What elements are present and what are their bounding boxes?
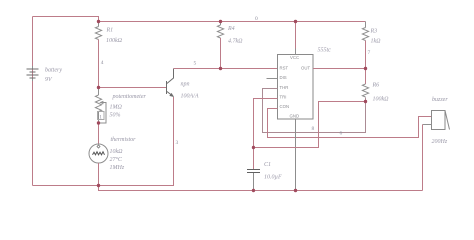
wire node 4 R1 bottom to potentiometer — [98, 40, 100, 88]
svg-text:7: 7 — [368, 50, 371, 56]
svg-text:8: 8 — [312, 126, 315, 132]
wire pot bottom to thermistor — [98, 123, 100, 144]
capacitor C1 10uF — [247, 148, 260, 191]
svg-text:R4: R4 — [227, 25, 235, 32]
svg-text:thermistor: thermistor — [111, 137, 137, 143]
wire R4 bottom to collector net — [220, 38, 222, 69]
op-amp U1 555 timer box — [278, 55, 314, 120]
battery V1 9V — [27, 66, 39, 81]
wire CON to buzzer top — [268, 109, 432, 138]
svg-text:VCC: VCC — [290, 55, 299, 60]
svg-text:TRI: TRI — [280, 95, 287, 100]
pin stub VCC — [295, 49, 297, 55]
wire OUT pin to R3 R6 node 7 — [313, 68, 366, 70]
svg-text:4: 4 — [101, 60, 104, 66]
svg-text:buzzer: buzzer — [432, 97, 448, 103]
svg-text:CON: CON — [280, 104, 290, 109]
potentiometer P1 1M 50% — [95, 88, 106, 124]
wire buzzer bottom to ground rail — [422, 125, 424, 191]
svg-text:3: 3 — [176, 140, 179, 146]
svg-text:1MHz: 1MHz — [110, 165, 125, 171]
svg-text:5: 5 — [194, 61, 197, 67]
wire ground rail jog — [99, 186, 423, 191]
wire TRI to C1 top — [254, 99, 278, 148]
svg-text:DIS: DIS — [280, 75, 287, 80]
svg-text:50%: 50% — [110, 113, 121, 119]
svg-text:27°C: 27°C — [110, 156, 123, 163]
resistor R6 100k — [362, 69, 368, 98]
svg-text:R1: R1 — [106, 28, 114, 34]
svg-text:OUT: OUT — [301, 65, 310, 70]
svg-text:RST: RST — [280, 65, 289, 70]
svg-text:6: 6 — [340, 131, 343, 137]
svg-text:potentiometer: potentiometer — [112, 94, 147, 100]
wire top rail VCC net node 0 — [99, 21, 366, 23]
svg-text:1: 1 — [99, 115, 102, 121]
transistor Q1 npn — [167, 69, 174, 98]
svg-text:C1: C1 — [264, 162, 271, 168]
pin stub DIS unconnected — [267, 78, 278, 80]
thermistor RT1 — [89, 144, 108, 163]
resistor R4 4.7k — [217, 22, 223, 39]
svg-text:R3: R3 — [370, 29, 378, 35]
wire base net from pot top to transistor base — [99, 87, 167, 89]
wire top left from battery to R1 — [33, 17, 99, 22]
svg-text:GND: GND — [290, 114, 300, 119]
wire left rail from battery top — [32, 17, 34, 186]
svg-text:npn: npn — [181, 82, 190, 88]
svg-text:100kΩ: 100kΩ — [106, 38, 123, 44]
wire R3 bottom to OUT node — [365, 41, 367, 69]
wire bottom rail battery to emitter node 3 — [33, 97, 174, 186]
wire thermistor bottom to bottom rail — [98, 163, 100, 186]
wire GND pin down to ground rail — [295, 119, 297, 191]
svg-text:1kΩ: 1kΩ — [371, 39, 382, 45]
svg-text:battery: battery — [45, 68, 62, 74]
svg-text:100kΩ: 100kΩ — [373, 97, 390, 103]
wire VCC pin from top rail — [295, 22, 297, 49]
resistor R3 1k — [362, 22, 368, 41]
svg-text:4.7kΩ: 4.7kΩ — [228, 38, 243, 45]
wire timing net R6 bottom to C1 top — [254, 102, 366, 148]
svg-text:1MΩ: 1MΩ — [110, 105, 123, 111]
buzzer LS1 — [423, 111, 450, 130]
svg-text:100A/A: 100A/A — [181, 94, 199, 100]
svg-text:0: 0 — [255, 16, 258, 22]
wire collector node 5 to RST — [174, 68, 278, 70]
svg-text:9V: 9V — [45, 77, 53, 83]
svg-text:10.0µF: 10.0µF — [264, 175, 282, 181]
resistor R1 100k — [95, 22, 101, 40]
svg-text:THR: THR — [280, 85, 289, 90]
svg-text:10kΩ: 10kΩ — [110, 149, 124, 155]
svg-text:200Hz: 200Hz — [432, 139, 448, 145]
svg-text:555tc: 555tc — [318, 48, 332, 54]
wire THR net 6 to R6 bottom — [263, 89, 366, 133]
svg-text:R6: R6 — [372, 83, 380, 89]
